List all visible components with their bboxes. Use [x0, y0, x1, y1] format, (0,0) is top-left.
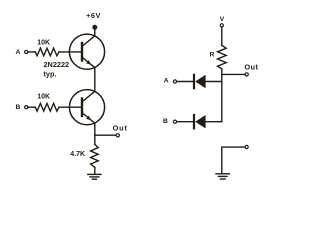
svg-text:R: R	[210, 52, 215, 59]
supply V terminal	[220, 24, 223, 27]
svg-text:10K: 10K	[37, 39, 50, 46]
resistor R2 10K	[35, 103, 59, 111]
diode D1	[194, 75, 206, 88]
wire R3 to ground	[94, 167, 96, 174]
label 10K for R2	[37, 94, 50, 101]
svg-text:+6V: +6V	[86, 11, 101, 20]
svg-text:Out: Out	[244, 62, 258, 71]
svg-text:typ.: typ.	[44, 70, 57, 79]
ground (right circuit)	[216, 174, 229, 179]
wire output branch	[95, 134, 116, 136]
wire R to output node	[221, 69, 223, 82]
transistor Q2	[69, 90, 104, 125]
wire V terminal to R	[221, 27, 223, 45]
wire supply to Q1 collector	[94, 29, 96, 36]
label input A (right circuit)	[164, 78, 169, 85]
output terminal (left circuit)	[116, 134, 119, 137]
resistor R1 10K	[35, 48, 59, 56]
ground terminal (right circuit)	[245, 145, 248, 148]
input A terminal	[25, 50, 28, 53]
label 2N2222 typ.	[44, 60, 70, 78]
wire D1 to output node	[206, 81, 222, 83]
svg-text:B: B	[163, 118, 168, 125]
label input A	[16, 49, 21, 56]
input B terminal (right circuit)	[173, 120, 176, 123]
wire B terminal to R2	[28, 106, 36, 108]
wire A terminal to R1	[28, 51, 36, 53]
input B terminal	[25, 106, 28, 109]
svg-text:4.7K: 4.7K	[70, 151, 85, 158]
svg-text:B: B	[16, 104, 21, 111]
svg-text:A: A	[16, 49, 21, 56]
wire Q2 emitter to output node	[94, 123, 96, 144]
wire B terminal to D2	[177, 121, 194, 123]
wire output node to D2	[221, 82, 223, 122]
+6V supply terminal	[93, 25, 97, 29]
wire R2 to Q2 base	[59, 106, 82, 108]
wire ground terminal to ground symbol	[222, 147, 245, 173]
label input B (right circuit)	[163, 118, 168, 125]
svg-text:2N2222: 2N2222	[44, 60, 70, 69]
label +6V supply	[86, 11, 101, 20]
transistor Q1	[69, 34, 104, 69]
resistor R3 4.7K	[91, 144, 99, 167]
resistor R	[218, 45, 227, 68]
svg-text:V: V	[220, 16, 225, 23]
label input B	[16, 104, 21, 111]
diode D2	[194, 115, 206, 128]
label Out (right circuit)	[244, 62, 258, 71]
wire output branch (right)	[222, 73, 245, 75]
output terminal (right circuit)	[245, 73, 248, 76]
wire D2 to output node	[206, 121, 222, 123]
svg-text:10K: 10K	[37, 94, 50, 101]
wire Q1 emitter to Q2 collector	[94, 68, 96, 91]
wire R1 to Q1 base	[59, 51, 82, 53]
label Out (left circuit)	[113, 124, 128, 133]
svg-text:A: A	[164, 78, 169, 85]
input A terminal (right circuit)	[173, 80, 176, 83]
label R	[210, 52, 215, 59]
ground (left circuit)	[88, 174, 101, 179]
wire A terminal to D1	[177, 81, 194, 83]
label supply V (right circuit)	[220, 16, 225, 23]
label 10K for R1	[37, 39, 50, 46]
label 4.7K for R3	[70, 151, 85, 158]
svg-text:Out: Out	[113, 124, 128, 133]
